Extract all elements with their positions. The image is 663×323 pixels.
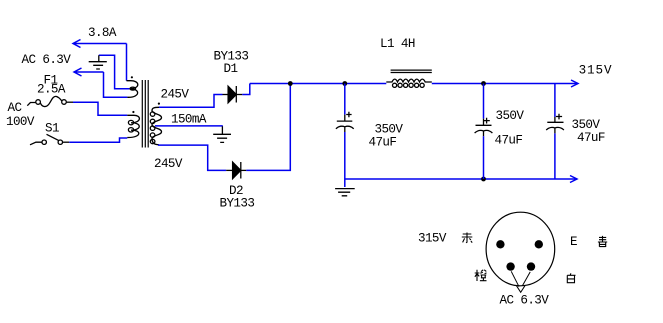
pin AC left (506, 262, 514, 270)
label kanji white (567, 273, 575, 283)
ground G1 (6.3V center tap) (89, 55, 107, 69)
capacitor C1 (344, 84, 346, 115)
svg-text:350V: 350V (375, 123, 404, 137)
keyway notch (516, 285, 525, 292)
svg-text:AC 6.3V: AC 6.3V (22, 53, 72, 67)
svg-text:3.8A: 3.8A (88, 26, 117, 40)
svg-text:L1 4H: L1 4H (380, 37, 415, 51)
ground G2 (HT center tap) (213, 126, 231, 142)
capacitor C3 (554, 84, 556, 117)
keyway line right (522, 272, 530, 286)
wire D2 to junction (246, 84, 290, 171)
wire fuse to primary top (73, 102, 127, 115)
arrow 315V output (571, 80, 578, 87)
svg-text:47uF: 47uF (577, 131, 605, 145)
label kanji blue (598, 236, 607, 247)
svg-text:350V: 350V (572, 118, 601, 132)
svg-text:100V: 100V (6, 115, 35, 129)
pin E (535, 240, 543, 248)
bottom rail (345, 178, 577, 180)
svg-text:BY133: BY133 (220, 197, 255, 211)
keyway line left (511, 271, 519, 286)
svg-text:D1: D1 (224, 62, 238, 76)
wire switch to primary bottom (69, 138, 127, 142)
polarity dot secondary (158, 103, 160, 105)
wire secondary top to D1 (159, 95, 223, 108)
junction dot C1 top (342, 81, 347, 86)
arrow 6.3V output top (73, 40, 127, 48)
wire secondary center tap (155, 125, 223, 127)
svg-text:AC: AC (8, 101, 23, 115)
junction dot C2 bottom (481, 177, 486, 182)
junction dot D2 (288, 81, 293, 86)
pin AC right (527, 262, 535, 270)
transformer secondary winding (150, 107, 161, 145)
wire D1 to rail (242, 84, 250, 95)
top rail left segment (250, 83, 386, 85)
svg-text:2.5A: 2.5A (37, 83, 66, 97)
svg-text:350V: 350V (496, 109, 525, 123)
svg-text:245V: 245V (161, 88, 190, 102)
capacitor C2 (483, 84, 485, 119)
wire 3.8A to winding top (126, 44, 128, 81)
ground G3 (C1) (335, 189, 355, 196)
pin 315V (496, 240, 504, 248)
wire arrow2 to winding bottom (104, 72, 128, 97)
diode D1 (223, 86, 243, 103)
polarity dot 6.3V (131, 76, 133, 78)
transformer 6.3V winding (127, 81, 138, 98)
top rail right segment (432, 83, 578, 85)
svg-text:E: E (570, 235, 577, 249)
polarity dot primary (132, 111, 134, 113)
transformer T1 core (142, 80, 148, 148)
arrow bottom rail output (570, 176, 577, 183)
svg-text:AC 6.3V: AC 6.3V (500, 294, 550, 308)
wire secondary bottom to D2 (158, 145, 226, 170)
svg-text:150mA: 150mA (171, 113, 207, 127)
fuse F1 (27, 96, 73, 106)
svg-text:47uF: 47uF (495, 134, 523, 148)
label kanji orange (475, 270, 487, 281)
diode D2 (226, 162, 246, 179)
svg-text:47uF: 47uF (369, 136, 397, 150)
svg-text:245V: 245V (154, 157, 183, 171)
arrow 6.3V output bottom (74, 68, 104, 76)
connector plug circle (486, 212, 555, 286)
svg-text:S1: S1 (45, 122, 59, 136)
switch S1 (30, 134, 69, 145)
transformer primary winding (127, 115, 139, 137)
svg-text:315V: 315V (418, 232, 447, 246)
inductor L1 (386, 70, 432, 87)
wire center tap 6.3V to ground (99, 55, 130, 88)
junction dot C2 top (481, 81, 486, 86)
svg-text:315V: 315V (579, 64, 613, 78)
label kanji red (462, 233, 473, 243)
